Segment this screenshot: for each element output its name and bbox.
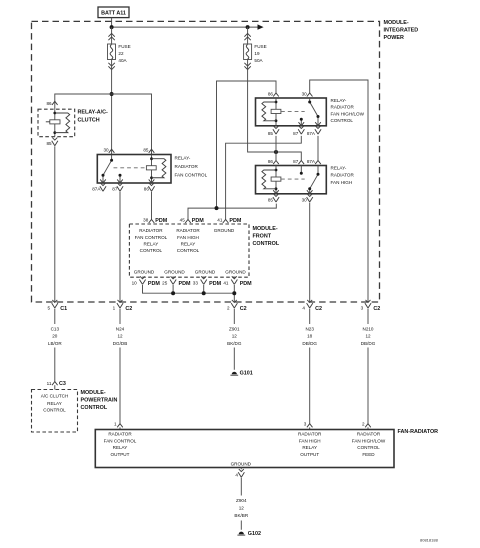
- svg-text:C3: C3: [59, 381, 66, 387]
- svg-text:30: 30: [302, 91, 308, 96]
- svg-text:86: 86: [46, 101, 52, 106]
- svg-text:87A: 87A: [92, 186, 101, 191]
- svg-text:PDM: PDM: [179, 281, 191, 287]
- svg-text:PDM: PDM: [148, 281, 160, 287]
- fuse 19 50A: [244, 44, 267, 63]
- svg-text:CLUTCH: CLUTCH: [78, 117, 100, 123]
- svg-text:87: 87: [112, 186, 118, 191]
- connector 2 C2: [227, 300, 247, 312]
- svg-text:MODULE-: MODULE-: [253, 226, 278, 232]
- connector arrows below fuse 22: [108, 63, 114, 70]
- svg-text:FAN CONTROL: FAN CONTROL: [104, 438, 137, 443]
- connector arrows above fuse 22: [108, 33, 114, 40]
- svg-text:1: 1: [113, 306, 116, 311]
- fan-radiator box: [95, 430, 394, 468]
- svg-text:33: 33: [193, 281, 199, 286]
- svg-text:CONTROL: CONTROL: [357, 445, 380, 450]
- svg-text:19: 19: [254, 51, 260, 56]
- junction bus 1: [171, 291, 175, 295]
- svg-text:C13: C13: [51, 326, 60, 331]
- relay fan high/low coil link: [281, 110, 305, 112]
- svg-text:FAN HIGH: FAN HIGH: [331, 180, 353, 185]
- wire N23 18 DB/DG: [302, 309, 317, 424]
- svg-text:CONTROL: CONTROL: [253, 241, 280, 247]
- svg-text:5: 5: [47, 306, 50, 311]
- relay A/C clutch coil: [46, 109, 70, 137]
- wire C13 20 LB/OR: [48, 309, 62, 382]
- ground G102: [237, 531, 261, 537]
- svg-text:30: 30: [302, 197, 308, 202]
- svg-text:12: 12: [365, 334, 371, 339]
- svg-text:87A: 87A: [307, 159, 316, 164]
- junction PDM45 branch: [215, 206, 219, 210]
- svg-text:MODULE-: MODULE-: [384, 20, 409, 26]
- svg-text:RADIATOR: RADIATOR: [176, 228, 200, 233]
- svg-text:4: 4: [302, 306, 305, 311]
- svg-text:85: 85: [268, 197, 274, 202]
- svg-text:11: 11: [47, 381, 52, 386]
- svg-text:10: 10: [132, 281, 138, 286]
- svg-text:RELAY: RELAY: [113, 445, 128, 450]
- relay radiator fan control coil link: [114, 167, 147, 169]
- svg-text:FAN HIGH/LOW: FAN HIGH/LOW: [331, 111, 365, 116]
- relay fan high/low switch: [299, 98, 321, 126]
- svg-text:GROUND: GROUND: [214, 228, 235, 233]
- connector 3 C2: [361, 300, 381, 312]
- svg-text:FAN HIGH: FAN HIGH: [299, 438, 321, 443]
- pin 30 fan control relay: [103, 148, 114, 153]
- relay fan high/low coil: [262, 98, 281, 126]
- svg-text:LB/OR: LB/OR: [48, 341, 62, 346]
- pin 30 hi/lo relay: [302, 91, 313, 96]
- svg-text:C2: C2: [125, 306, 132, 312]
- svg-text:25: 25: [162, 281, 168, 286]
- wire C3 stub: [54, 385, 56, 389]
- wire PDM45 to coils: [188, 81, 276, 219]
- wire fuse22 top: [111, 27, 113, 44]
- relay A/C clutch dashed box: [38, 109, 75, 137]
- junction batt/fuse22: [110, 25, 114, 29]
- svg-text:PDM: PDM: [209, 281, 221, 287]
- svg-text:RELAY-: RELAY-: [331, 165, 347, 170]
- connector arrows above fuse 19: [244, 33, 250, 40]
- wire ground bus: [143, 285, 235, 302]
- wire fuse19 top: [247, 27, 249, 44]
- svg-text:RADIATOR: RADIATOR: [357, 431, 381, 436]
- pin 87 fan control relay: [112, 183, 123, 191]
- svg-text:GROUND: GROUND: [225, 269, 246, 274]
- svg-text:FUSE: FUSE: [254, 44, 266, 49]
- svg-text:2: 2: [362, 421, 365, 426]
- svg-text:RADIATOR: RADIATOR: [175, 164, 199, 169]
- wire pin2 stub: [367, 427, 369, 429]
- junction bus 2: [202, 291, 206, 295]
- svg-text:CONTROL: CONTROL: [140, 248, 163, 253]
- svg-text:12: 12: [239, 506, 245, 511]
- svg-text:RELAY: RELAY: [47, 401, 62, 406]
- svg-text:OUTPUT: OUTPUT: [111, 452, 130, 457]
- svg-text:RELAY: RELAY: [144, 242, 159, 247]
- svg-text:PDM: PDM: [240, 281, 252, 287]
- pin 2 fan radiator: [362, 421, 371, 427]
- svg-text:85: 85: [46, 141, 52, 146]
- svg-text:FAN HIGH/LOW: FAN HIGH/LOW: [352, 438, 386, 443]
- wire hi/lo 87A to fan-high 87A: [317, 136, 319, 161]
- svg-text:DB/DG: DB/DG: [302, 341, 317, 346]
- svg-text:GROUND: GROUND: [195, 269, 216, 274]
- wire branch to fan control relay coil: [112, 94, 152, 155]
- pin 38 PDM: [143, 218, 168, 224]
- module-integrated power box: [32, 21, 380, 302]
- pin 87 hi/lo relay: [293, 126, 304, 136]
- svg-text:PDM: PDM: [155, 218, 167, 224]
- wire hi/lo 87 to PDM41: [226, 136, 302, 220]
- pin 85 fan high relay: [268, 194, 279, 202]
- junction fuse19/coil feed: [274, 150, 278, 154]
- junction batt/fuse19: [246, 25, 250, 29]
- svg-text:FAN-RADIATOR: FAN-RADIATOR: [398, 429, 439, 435]
- svg-text:RELAY: RELAY: [181, 242, 196, 247]
- connector 5 C1: [47, 300, 67, 312]
- wire A/C 85 to C1: [54, 146, 56, 302]
- relay fan high switch: [273, 166, 319, 194]
- svg-text:FEED: FEED: [362, 452, 375, 457]
- svg-text:20: 20: [52, 334, 58, 339]
- wire fuse19 to fan-high 87: [248, 60, 302, 161]
- svg-text:POWER: POWER: [384, 35, 404, 41]
- svg-text:N23: N23: [305, 326, 314, 331]
- svg-text:GROUND: GROUND: [134, 269, 155, 274]
- svg-text:C2: C2: [240, 306, 247, 312]
- wire N24 12 DG/DB: [113, 309, 128, 424]
- pin 86 fan control relay: [144, 183, 155, 191]
- connector 4 C2: [302, 300, 322, 312]
- svg-text:CONTROL: CONTROL: [43, 407, 66, 412]
- BATT A11 feed box: [98, 7, 129, 18]
- svg-text:RELAY-: RELAY-: [175, 155, 191, 160]
- pin 87A fan high relay: [307, 159, 321, 164]
- svg-text:CONTROL: CONTROL: [331, 118, 354, 123]
- relay radiator fan high box: [256, 166, 327, 194]
- junction bus 3: [232, 291, 236, 295]
- junction fuse22 branch: [110, 92, 114, 96]
- pin 87A hi/lo relay: [307, 126, 321, 136]
- wire fan control 86 to PDM 38: [151, 192, 153, 220]
- arrowhead feed continues: [258, 24, 264, 29]
- node radiator fan control relay output: [104, 431, 137, 457]
- node radiator fan high/low control feed: [352, 431, 386, 457]
- pin 85 fan control relay: [143, 148, 154, 153]
- relay radiator fan control box: [97, 155, 171, 184]
- wire branch to A/C relay coil: [55, 94, 112, 109]
- pin 30 fan high relay: [302, 194, 313, 202]
- pin 33 PDM: [193, 276, 222, 286]
- node radiator fan high relay output: [298, 431, 322, 457]
- svg-text:18: 18: [307, 334, 313, 339]
- wire Z904 12 BK/BR: [234, 478, 248, 530]
- wire fan ground stub: [240, 468, 242, 470]
- svg-text:MODULE-: MODULE-: [81, 390, 106, 396]
- svg-text:DB/DG: DB/DG: [361, 341, 376, 346]
- svg-text:38: 38: [143, 218, 149, 223]
- svg-text:85: 85: [143, 148, 149, 153]
- svg-text:2: 2: [227, 306, 230, 311]
- pin 86 hi/lo relay: [268, 91, 279, 96]
- pin 87 fan high relay: [293, 159, 304, 164]
- svg-text:FAN HIGH: FAN HIGH: [177, 235, 199, 240]
- svg-text:DG/DB: DG/DB: [113, 341, 128, 346]
- svg-text:A/C CLUTCH: A/C CLUTCH: [41, 393, 69, 398]
- pin 41 PDM: [217, 218, 242, 224]
- svg-text:41: 41: [217, 218, 223, 223]
- svg-text:RADIATOR: RADIATOR: [139, 228, 163, 233]
- wire pin3 stub: [309, 427, 311, 429]
- wire pin1 stub: [119, 427, 121, 429]
- relay radiator fan high/low control box: [256, 98, 327, 126]
- svg-text:BATT A11: BATT A11: [101, 10, 126, 16]
- svg-text:86: 86: [268, 159, 274, 164]
- module-powertrain control box: [32, 390, 78, 433]
- pin 86 A/C relay: [46, 101, 57, 106]
- pin 86 fan high relay: [268, 159, 279, 164]
- pin 25 PDM: [162, 276, 191, 286]
- svg-text:BK/DG: BK/DG: [227, 341, 242, 346]
- pin 41 PDM ground: [223, 276, 252, 286]
- svg-text:85: 85: [268, 131, 274, 136]
- fuse 22 40A: [108, 44, 131, 63]
- svg-text:3: 3: [361, 306, 364, 311]
- svg-text:3: 3: [304, 421, 307, 426]
- svg-text:N210: N210: [363, 326, 374, 331]
- svg-text:Z901: Z901: [229, 326, 240, 331]
- pin 4 fan radiator: [235, 469, 244, 478]
- svg-text:FRONT: FRONT: [253, 233, 272, 239]
- node radiator fan control relay control: [135, 228, 168, 253]
- svg-text:C2: C2: [315, 306, 322, 312]
- module-front control box: [129, 224, 249, 277]
- relay fan high coil: [262, 166, 281, 194]
- wire fan control 87 to C2: [119, 192, 121, 302]
- svg-text:12: 12: [117, 334, 123, 339]
- wire N210 12 DB/DG: [361, 309, 376, 424]
- svg-text:OUTPUT: OUTPUT: [300, 452, 319, 457]
- svg-text:45: 45: [180, 218, 186, 223]
- ground G101: [230, 371, 252, 377]
- svg-text:BK/BR: BK/BR: [234, 513, 248, 518]
- svg-text:87A: 87A: [307, 131, 316, 136]
- connector 1 C2: [113, 300, 133, 312]
- pin 85 hi/lo relay: [268, 126, 279, 136]
- relay fan high coil link: [281, 178, 305, 180]
- pin 11 C3: [47, 381, 66, 387]
- connector arrows below fuse 19: [244, 63, 250, 70]
- svg-text:80818188: 80818188: [420, 538, 439, 543]
- svg-text:POWERTRAIN: POWERTRAIN: [81, 397, 118, 403]
- pin 3 fan radiator: [304, 421, 313, 427]
- svg-text:FAN CONTROL: FAN CONTROL: [175, 172, 208, 177]
- svg-text:RELAY-: RELAY-: [331, 98, 347, 103]
- wire fuse22 to relay pin30: [111, 60, 113, 155]
- svg-text:INTEGRATED: INTEGRATED: [384, 28, 419, 34]
- svg-text:1: 1: [114, 421, 117, 426]
- svg-text:GROUND: GROUND: [231, 461, 252, 466]
- pin 45 PDM: [180, 218, 205, 224]
- wire hi/lo 85 to fan-high 86: [275, 136, 277, 161]
- relay radiator fan control coil: [146, 155, 166, 184]
- wire hi/lo 30 to C2: [310, 80, 368, 302]
- svg-text:RELAY-A/C-: RELAY-A/C-: [78, 110, 109, 116]
- svg-text:PDM: PDM: [192, 218, 204, 224]
- svg-text:G101: G101: [240, 371, 253, 377]
- svg-text:CONTROL: CONTROL: [177, 248, 200, 253]
- svg-text:40A: 40A: [118, 58, 127, 63]
- node radiator fan high relay control: [176, 228, 200, 253]
- svg-text:C1: C1: [60, 306, 67, 312]
- svg-text:87: 87: [293, 131, 299, 136]
- pin 85 A/C relay: [46, 138, 57, 146]
- wire BATT A11 feed: [112, 18, 259, 28]
- svg-text:22: 22: [118, 51, 124, 56]
- svg-text:30: 30: [103, 148, 109, 153]
- svg-text:86: 86: [144, 186, 150, 191]
- svg-text:87: 87: [293, 159, 299, 164]
- relay radiator fan control switch: [100, 155, 123, 184]
- svg-text:4: 4: [235, 473, 238, 478]
- svg-text:RADIATOR: RADIATOR: [108, 431, 132, 436]
- wire Z901 12 BK/DG: [227, 309, 242, 370]
- svg-text:50A: 50A: [254, 58, 263, 63]
- svg-text:12: 12: [232, 334, 238, 339]
- pin 10 PDM: [132, 276, 161, 286]
- svg-text:FUSE: FUSE: [118, 44, 130, 49]
- wire fan high 30 to C2: [309, 203, 311, 303]
- svg-text:41: 41: [223, 281, 229, 286]
- svg-text:FAN CONTROL: FAN CONTROL: [135, 235, 168, 240]
- svg-text:GROUND: GROUND: [164, 269, 185, 274]
- pin 1 fan radiator: [114, 421, 123, 427]
- svg-text:RELAY: RELAY: [302, 445, 317, 450]
- svg-text:G102: G102: [248, 531, 261, 537]
- svg-text:86: 86: [268, 91, 274, 96]
- svg-text:RADIATOR: RADIATOR: [331, 173, 355, 178]
- svg-text:RADIATOR: RADIATOR: [331, 105, 355, 110]
- node A/C clutch relay control: [41, 393, 69, 412]
- svg-text:RADIATOR: RADIATOR: [298, 431, 322, 436]
- svg-text:PDM: PDM: [229, 218, 241, 224]
- svg-text:C2: C2: [373, 306, 380, 312]
- svg-text:CONTROL: CONTROL: [81, 405, 108, 411]
- svg-text:N24: N24: [116, 326, 125, 331]
- pin 87A fan control relay stub: [92, 183, 106, 191]
- svg-text:Z904: Z904: [236, 498, 247, 503]
